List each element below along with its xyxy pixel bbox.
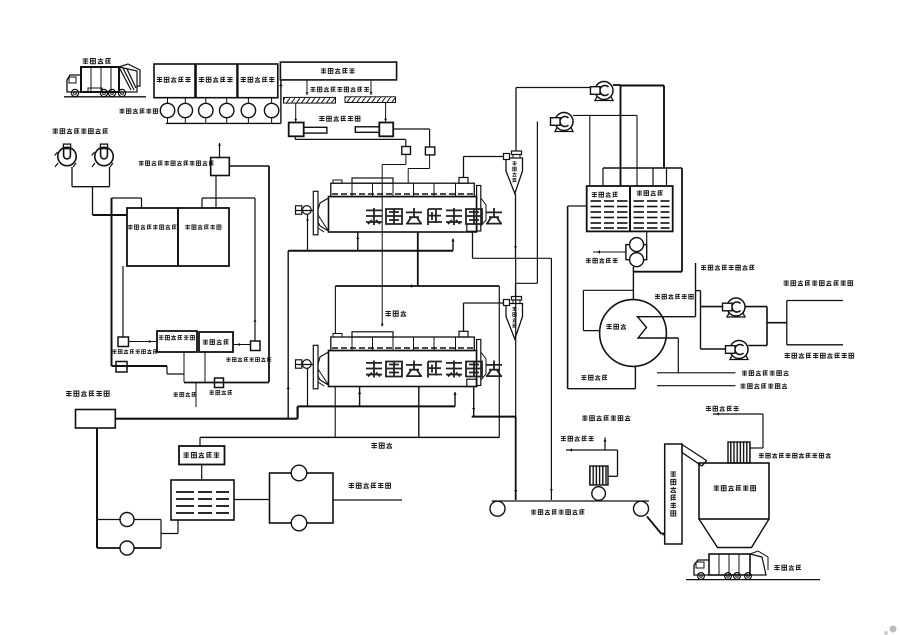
boiler connection bracket (786, 301, 788, 345)
label silo A (157, 77, 162, 83)
line y198 spray to bio box2 top (202, 197, 255, 199)
label non-condensable gas pipe 不凝结气管道 (655, 294, 660, 299)
boiler fan 2 inlet line (701, 348, 730, 350)
belt conveyor line 干污泥皮带输送机 (492, 500, 649, 502)
drop from screw1 to plunger pump 1 (295, 103, 297, 121)
label ejector (606, 324, 611, 330)
flash tank box 疏水扩容器 (179, 446, 225, 465)
vacuum jet pump box (211, 158, 230, 176)
drop arrow D to screw 1 (306, 80, 308, 95)
feed box 1 (402, 147, 411, 155)
fan suction from bio box (93, 214, 128, 216)
ground line under dump truck (686, 579, 820, 581)
steam arrow into dryer2 a (359, 387, 361, 407)
pool bottom outlet (646, 231, 648, 244)
bio deodorizing humidifier box 生物除臭加湿装置 (127, 208, 178, 266)
silo C box 湿污泥仓C (238, 64, 278, 98)
dryer1 shaft riser (307, 215, 309, 251)
dump truck 自卸汽车 (709, 554, 750, 575)
feed pipe box2 to dryer1 (429, 155, 431, 169)
label vacuum jet pump 污泥干化废蒸气真空喷射泵 (139, 161, 144, 166)
label screw conveyor 湿污泥仓螺旋输送机 (311, 87, 316, 92)
disc dryer 2 vessel 超圆盘式干燥机 (329, 351, 477, 387)
bio purification box 生物净化装置 (178, 208, 229, 266)
disc dryer 1 vessel 超圆盘式干燥机 (329, 197, 477, 233)
label hopper exhaust to deodorize 至除臭系统 (706, 406, 711, 411)
deodorizing fan 1 (58, 147, 76, 165)
humidifier pump square 除臭液循环加湿泵 (118, 337, 129, 347)
condensate riser x499 (498, 286, 500, 437)
riser from header up to silo D (280, 80, 282, 123)
label hopper bag filter 干污泥中间仓布袋除尘器 (759, 453, 764, 458)
cyclone separator 2 (512, 297, 522, 301)
label transfer pumps (120, 109, 125, 114)
label bio box 2 (185, 225, 190, 230)
flow circle 2 (97, 547, 161, 549)
left circuit vertical (111, 198, 113, 366)
branch to boiler fans (696, 290, 701, 292)
plunger pump 2 body (379, 123, 393, 137)
dry sludge line to belt (472, 416, 516, 418)
plunger pump 1 body (289, 123, 304, 137)
second pump square (116, 362, 127, 373)
label steam from main plant 主厂房来蒸气 (66, 391, 72, 397)
belt bag filter circle (592, 487, 606, 501)
tank outlet to transfer box (234, 499, 270, 501)
pump2 discharge pipe (393, 128, 429, 130)
hopper cone (699, 519, 769, 548)
spray pump suction from tank (233, 344, 251, 346)
line to plant raw water 至电厂原水池 (333, 499, 402, 501)
ground line under truck (64, 96, 146, 98)
cyclone2 label (vertical) (513, 307, 517, 311)
label deodorizing fans 湿泥干化除臭风机 (53, 128, 58, 134)
air ejector circle 抽气器 (600, 300, 667, 367)
steam arrow into dryer1 a (357, 232, 359, 251)
branch into dryer2 top nozzle (334, 286, 336, 333)
cooling water inlet header 循环水进水母管 (677, 338, 679, 373)
fan suction bus (72, 186, 110, 188)
bio box down pipe (122, 266, 124, 337)
flash tank feed (199, 437, 201, 446)
belt roller left (490, 501, 505, 516)
steam riser to dryer1 bus (287, 251, 289, 419)
wet sludge truck icon (81, 67, 119, 92)
condensate header 冷凝水 (200, 436, 499, 438)
cooling water tank with baffles (171, 480, 234, 520)
label cw inlet header (742, 370, 747, 375)
manifold down to condenser (681, 168, 683, 272)
cyclone1 dust drop (515, 194, 517, 259)
dryer2 vapor duct to cyclone2 (463, 303, 465, 331)
industrial water stub 接工业水 (195, 383, 197, 408)
elevator label (vertical) (671, 471, 677, 477)
boiler fans outlet collector (745, 306, 767, 308)
dust line to belt (473, 257, 552, 259)
label belt conveyor (531, 509, 536, 514)
waste pipe bottom run (568, 388, 636, 390)
label humidifier pump (112, 349, 116, 354)
label dump truck (774, 565, 779, 571)
transfer water box (270, 473, 334, 523)
feed box 2 (425, 147, 434, 155)
label spray pump (226, 357, 230, 362)
steam arrow into dryer1 b (452, 239, 454, 251)
label: wet sludge truck 湿污泥车 (83, 58, 89, 64)
pool inlet manifold (603, 167, 682, 169)
transfer box pump circle bottom (291, 515, 307, 531)
cyclone separator 1 旋风除尘器 (512, 151, 522, 155)
dryer1 condensate drop (417, 232, 419, 286)
scan speck bottom-right corner (890, 626, 897, 633)
label tap water pump (209, 390, 213, 395)
dryer2 discharge drop (473, 387, 475, 417)
drop arrow D to screw 2 (370, 80, 372, 95)
label flash tank (184, 452, 190, 458)
belt to elevator chute arrow (647, 517, 662, 535)
boiler fan 1 (727, 298, 745, 316)
vapor fan 2 (555, 113, 573, 131)
cyclone2 gas outlet (515, 283, 517, 296)
label wet sludge feed 湿污泥 (385, 311, 391, 317)
label industrial water (173, 392, 177, 397)
label silo D (321, 68, 326, 74)
hopper bag filter cap (728, 442, 750, 463)
pump line to filter (129, 341, 158, 343)
cooling water return header 循环水回水母管 (657, 385, 736, 387)
cyclone1 gas outlet to fan (515, 88, 517, 152)
silo A box 湿污泥仓A (154, 64, 195, 98)
makeup water tank box 补充水箱 (199, 332, 233, 352)
flow circle 1 (97, 519, 161, 521)
spray pump square 除臭液循环喷淋泵 (251, 341, 261, 351)
dryer2 condensate drop (418, 387, 420, 438)
vacuum pump discharge to bio box (215, 176, 217, 209)
left drop from steam box (96, 428, 98, 548)
drop from screw2 to plunger pump 2 (385, 103, 387, 122)
label hopper (714, 485, 719, 491)
flash tank to water tank (201, 465, 203, 481)
sewage pump box (626, 245, 647, 260)
plunger pump 1 piston (304, 127, 327, 133)
corner piping (160, 520, 162, 549)
fan suction drops (71, 167, 73, 187)
label belt cover suction (701, 265, 706, 270)
belt bag filter motor (590, 466, 608, 485)
thick line through second square (112, 365, 168, 367)
pump down to condenser (632, 267, 634, 300)
screw conveyor hatched bar 2 (345, 97, 396, 103)
label pool side A 水池A侧 (592, 192, 597, 197)
boiler fan 1 inlet line (701, 306, 723, 308)
dust main drop x515 (515, 258, 517, 416)
belt filter exhaust pipe (608, 475, 618, 477)
label pool side B 水池B侧 (637, 190, 642, 195)
condensate collector y286 (335, 285, 499, 287)
cooling pool with A/B sides 水池 (587, 186, 673, 231)
silo B box 湿污泥仓B (196, 64, 237, 98)
line y198 to bio box1 top (112, 197, 142, 199)
ejector notch flag (638, 317, 696, 338)
pump suction header (166, 122, 281, 124)
steam step up to dryer2 bus (297, 406, 299, 418)
label silo B (199, 77, 204, 83)
label plunger pumps 湿污泥柱塞泵 (319, 116, 324, 122)
silo D box 湿污泥仓D (280, 62, 396, 80)
feed pipe box1 to dryer2 (405, 154, 407, 164)
label to #2 boiler secondary fan inlet (785, 353, 790, 359)
label waste water pipe 废水管道 (581, 375, 586, 380)
label cw return header (740, 383, 745, 388)
pump1 discharge pipe (294, 136, 296, 139)
label filter box (159, 335, 164, 340)
sewage pump circle 1 (630, 238, 644, 252)
cyclone1 label (vertical) (513, 161, 517, 165)
boiler fan 2 (730, 341, 748, 359)
dryer1 vapor duct to cyclone1 (463, 157, 465, 178)
filter bottom drop (183, 352, 185, 382)
elevator top chute (682, 445, 707, 467)
deodorizing fan 2 (95, 147, 113, 165)
dryer2 left condensate drop (334, 387, 336, 438)
dryer1 title text (366, 208, 382, 225)
screw conveyor hatched bar 1 (284, 97, 336, 103)
dryer2 title text (366, 361, 382, 378)
steam box (76, 410, 116, 429)
label to plant raw water (349, 483, 354, 489)
fan2 discharge (573, 114, 637, 116)
label bio box 1 (128, 225, 133, 230)
pool waste water outlet (568, 205, 587, 207)
bucket elevator 干污泥斗提机 (665, 444, 682, 544)
tap water pump square 自来水泵 (215, 378, 224, 388)
line to sewage plant 污水处理厂 (593, 251, 626, 253)
dry sludge intermediate hopper 干污泥中间仓 (699, 463, 769, 519)
dryer1 steam bus (288, 250, 453, 252)
dryer2 steam bus (298, 405, 455, 407)
vapor fan 1 (top) (595, 82, 613, 100)
hopper filter exhaust (750, 447, 763, 449)
spray pump riser to bio box (254, 198, 256, 341)
label makeup tank (203, 339, 208, 344)
steam main line (115, 418, 297, 420)
circulating water filter box 循环水过滤器 (157, 331, 197, 352)
label to afterburner fan 至后燃尾气风机 (582, 415, 587, 421)
sewage pump circle 2 (630, 253, 644, 267)
dryer1 discharge drop (472, 231, 474, 258)
non-condensable gas loop (583, 330, 599, 332)
label condensate (371, 443, 377, 449)
label sewage plant (586, 258, 591, 263)
steam arrow into dryer2 b (454, 392, 456, 406)
label silo C (241, 77, 246, 83)
label to #1 boiler secondary fan inlet (784, 280, 789, 286)
plunger pump 2 piston (355, 127, 379, 133)
fan1 discharge thick path (613, 84, 621, 86)
wet sludge transfer pumps (6 circles) 湿污泥中转泵 (167, 98, 169, 104)
vacuum pump exhaust stub (219, 143, 221, 158)
dryer2 shaft riser (307, 369, 309, 407)
transfer box pump circle top (291, 465, 307, 481)
bottom water line y382 (184, 382, 269, 384)
branch arrow up to afterburner fan (604, 438, 606, 451)
vacuum pump motive water line (229, 165, 269, 167)
label to deodorize system 至除臭系统 (561, 436, 566, 441)
tank bottom drop (204, 352, 206, 382)
belt cover suction line 干污泥皮带罩抽气 (695, 263, 697, 317)
belt roller right (634, 501, 649, 516)
